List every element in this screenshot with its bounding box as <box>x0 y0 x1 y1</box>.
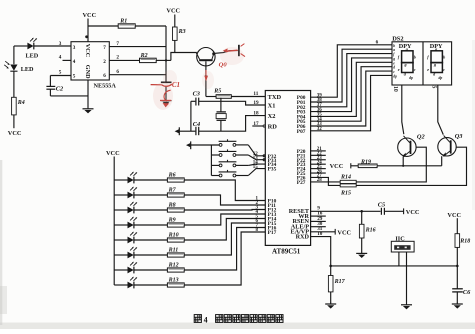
svg-text:LED: LED <box>21 66 34 73</box>
svg-text:RXD: RXD <box>296 233 310 240</box>
svg-text:C2: C2 <box>56 85 63 92</box>
svg-text:3: 3 <box>59 41 62 47</box>
svg-text:VCC: VCC <box>83 12 97 19</box>
svg-text:R4: R4 <box>17 100 25 106</box>
svg-text:R17: R17 <box>334 279 346 285</box>
svg-text:VCC: VCC <box>337 229 351 236</box>
svg-text:7: 7 <box>116 41 119 47</box>
svg-text:VCC: VCC <box>84 44 91 57</box>
svg-text:VCC: VCC <box>166 8 180 15</box>
svg-text:2: 2 <box>103 59 106 65</box>
svg-text:VCC: VCC <box>106 150 120 157</box>
svg-text:R18: R18 <box>459 239 470 245</box>
svg-text:17: 17 <box>253 121 259 127</box>
svg-text:6: 6 <box>376 39 379 45</box>
svg-text:P35: P35 <box>268 167 277 173</box>
svg-text:4: 4 <box>73 59 76 65</box>
svg-text:VCC: VCC <box>330 163 344 170</box>
svg-text:C3: C3 <box>193 91 200 98</box>
svg-text:5: 5 <box>431 86 437 89</box>
svg-text:R16: R16 <box>365 227 376 233</box>
svg-text:b: b <box>414 54 416 59</box>
svg-text:VCC: VCC <box>447 212 461 219</box>
svg-text:g: g <box>433 62 436 67</box>
svg-text:4: 4 <box>204 315 208 324</box>
svg-text:c: c <box>443 67 445 72</box>
svg-text:R6: R6 <box>168 173 176 179</box>
svg-text:6: 6 <box>103 73 106 79</box>
svg-text:dp: dp <box>409 76 413 80</box>
svg-text:R19: R19 <box>360 160 371 166</box>
svg-text:NE555A: NE555A <box>94 83 117 90</box>
svg-text:GND: GND <box>84 65 91 79</box>
svg-text:a: a <box>406 46 408 51</box>
svg-text:e: e <box>427 67 429 72</box>
svg-text:4: 4 <box>59 55 62 61</box>
svg-text:C4: C4 <box>193 121 200 128</box>
svg-text:C6: C6 <box>463 289 471 296</box>
svg-text:7: 7 <box>103 45 106 51</box>
svg-text:dp: dp <box>439 76 443 80</box>
svg-text:AT89C51: AT89C51 <box>272 248 301 256</box>
svg-text:R9: R9 <box>168 218 176 224</box>
svg-text:19: 19 <box>253 100 259 106</box>
svg-text:R5: R5 <box>213 88 221 94</box>
svg-text:15: 15 <box>253 165 258 170</box>
svg-text:R7: R7 <box>168 188 177 194</box>
svg-text:dp: dp <box>393 74 397 78</box>
svg-text:Q2: Q2 <box>417 134 426 141</box>
svg-text:Q3: Q3 <box>455 133 464 140</box>
svg-text:X2: X2 <box>268 113 276 120</box>
svg-text:TXD: TXD <box>268 94 282 101</box>
svg-text:R1: R1 <box>119 19 127 25</box>
svg-text:C5: C5 <box>378 202 385 209</box>
svg-text:R14: R14 <box>340 175 351 181</box>
svg-text:g: g <box>404 62 407 67</box>
svg-text:e: e <box>398 67 400 72</box>
svg-text:R2: R2 <box>140 53 148 59</box>
svg-text:11: 11 <box>253 91 258 97</box>
svg-text:VCC: VCC <box>8 130 22 137</box>
svg-text:P27: P27 <box>297 180 306 186</box>
svg-text:R15: R15 <box>340 191 351 197</box>
svg-text:RD: RD <box>268 123 278 130</box>
svg-text:a: a <box>435 46 437 51</box>
svg-text:R3: R3 <box>178 29 186 35</box>
svg-text:R11: R11 <box>168 248 179 254</box>
svg-text:P07: P07 <box>297 129 306 135</box>
svg-text:18: 18 <box>253 110 259 116</box>
svg-text:R13: R13 <box>168 278 179 284</box>
svg-text:R10: R10 <box>168 233 179 239</box>
svg-text:5: 5 <box>59 70 62 76</box>
svg-text:2: 2 <box>116 55 119 61</box>
svg-text:10: 10 <box>392 86 398 92</box>
svg-text:R8: R8 <box>168 203 176 209</box>
svg-text:X1: X1 <box>268 102 276 109</box>
svg-text:b: b <box>443 54 445 59</box>
svg-text:LED: LED <box>26 53 39 60</box>
svg-text:c: c <box>414 67 416 72</box>
svg-text:VCC: VCC <box>406 209 420 216</box>
svg-text:3: 3 <box>73 45 76 51</box>
svg-text:6: 6 <box>116 69 119 75</box>
svg-text:R12: R12 <box>168 263 179 269</box>
svg-text:P17: P17 <box>268 230 277 236</box>
svg-text:DS2: DS2 <box>392 36 403 43</box>
svg-text:5: 5 <box>73 73 76 79</box>
